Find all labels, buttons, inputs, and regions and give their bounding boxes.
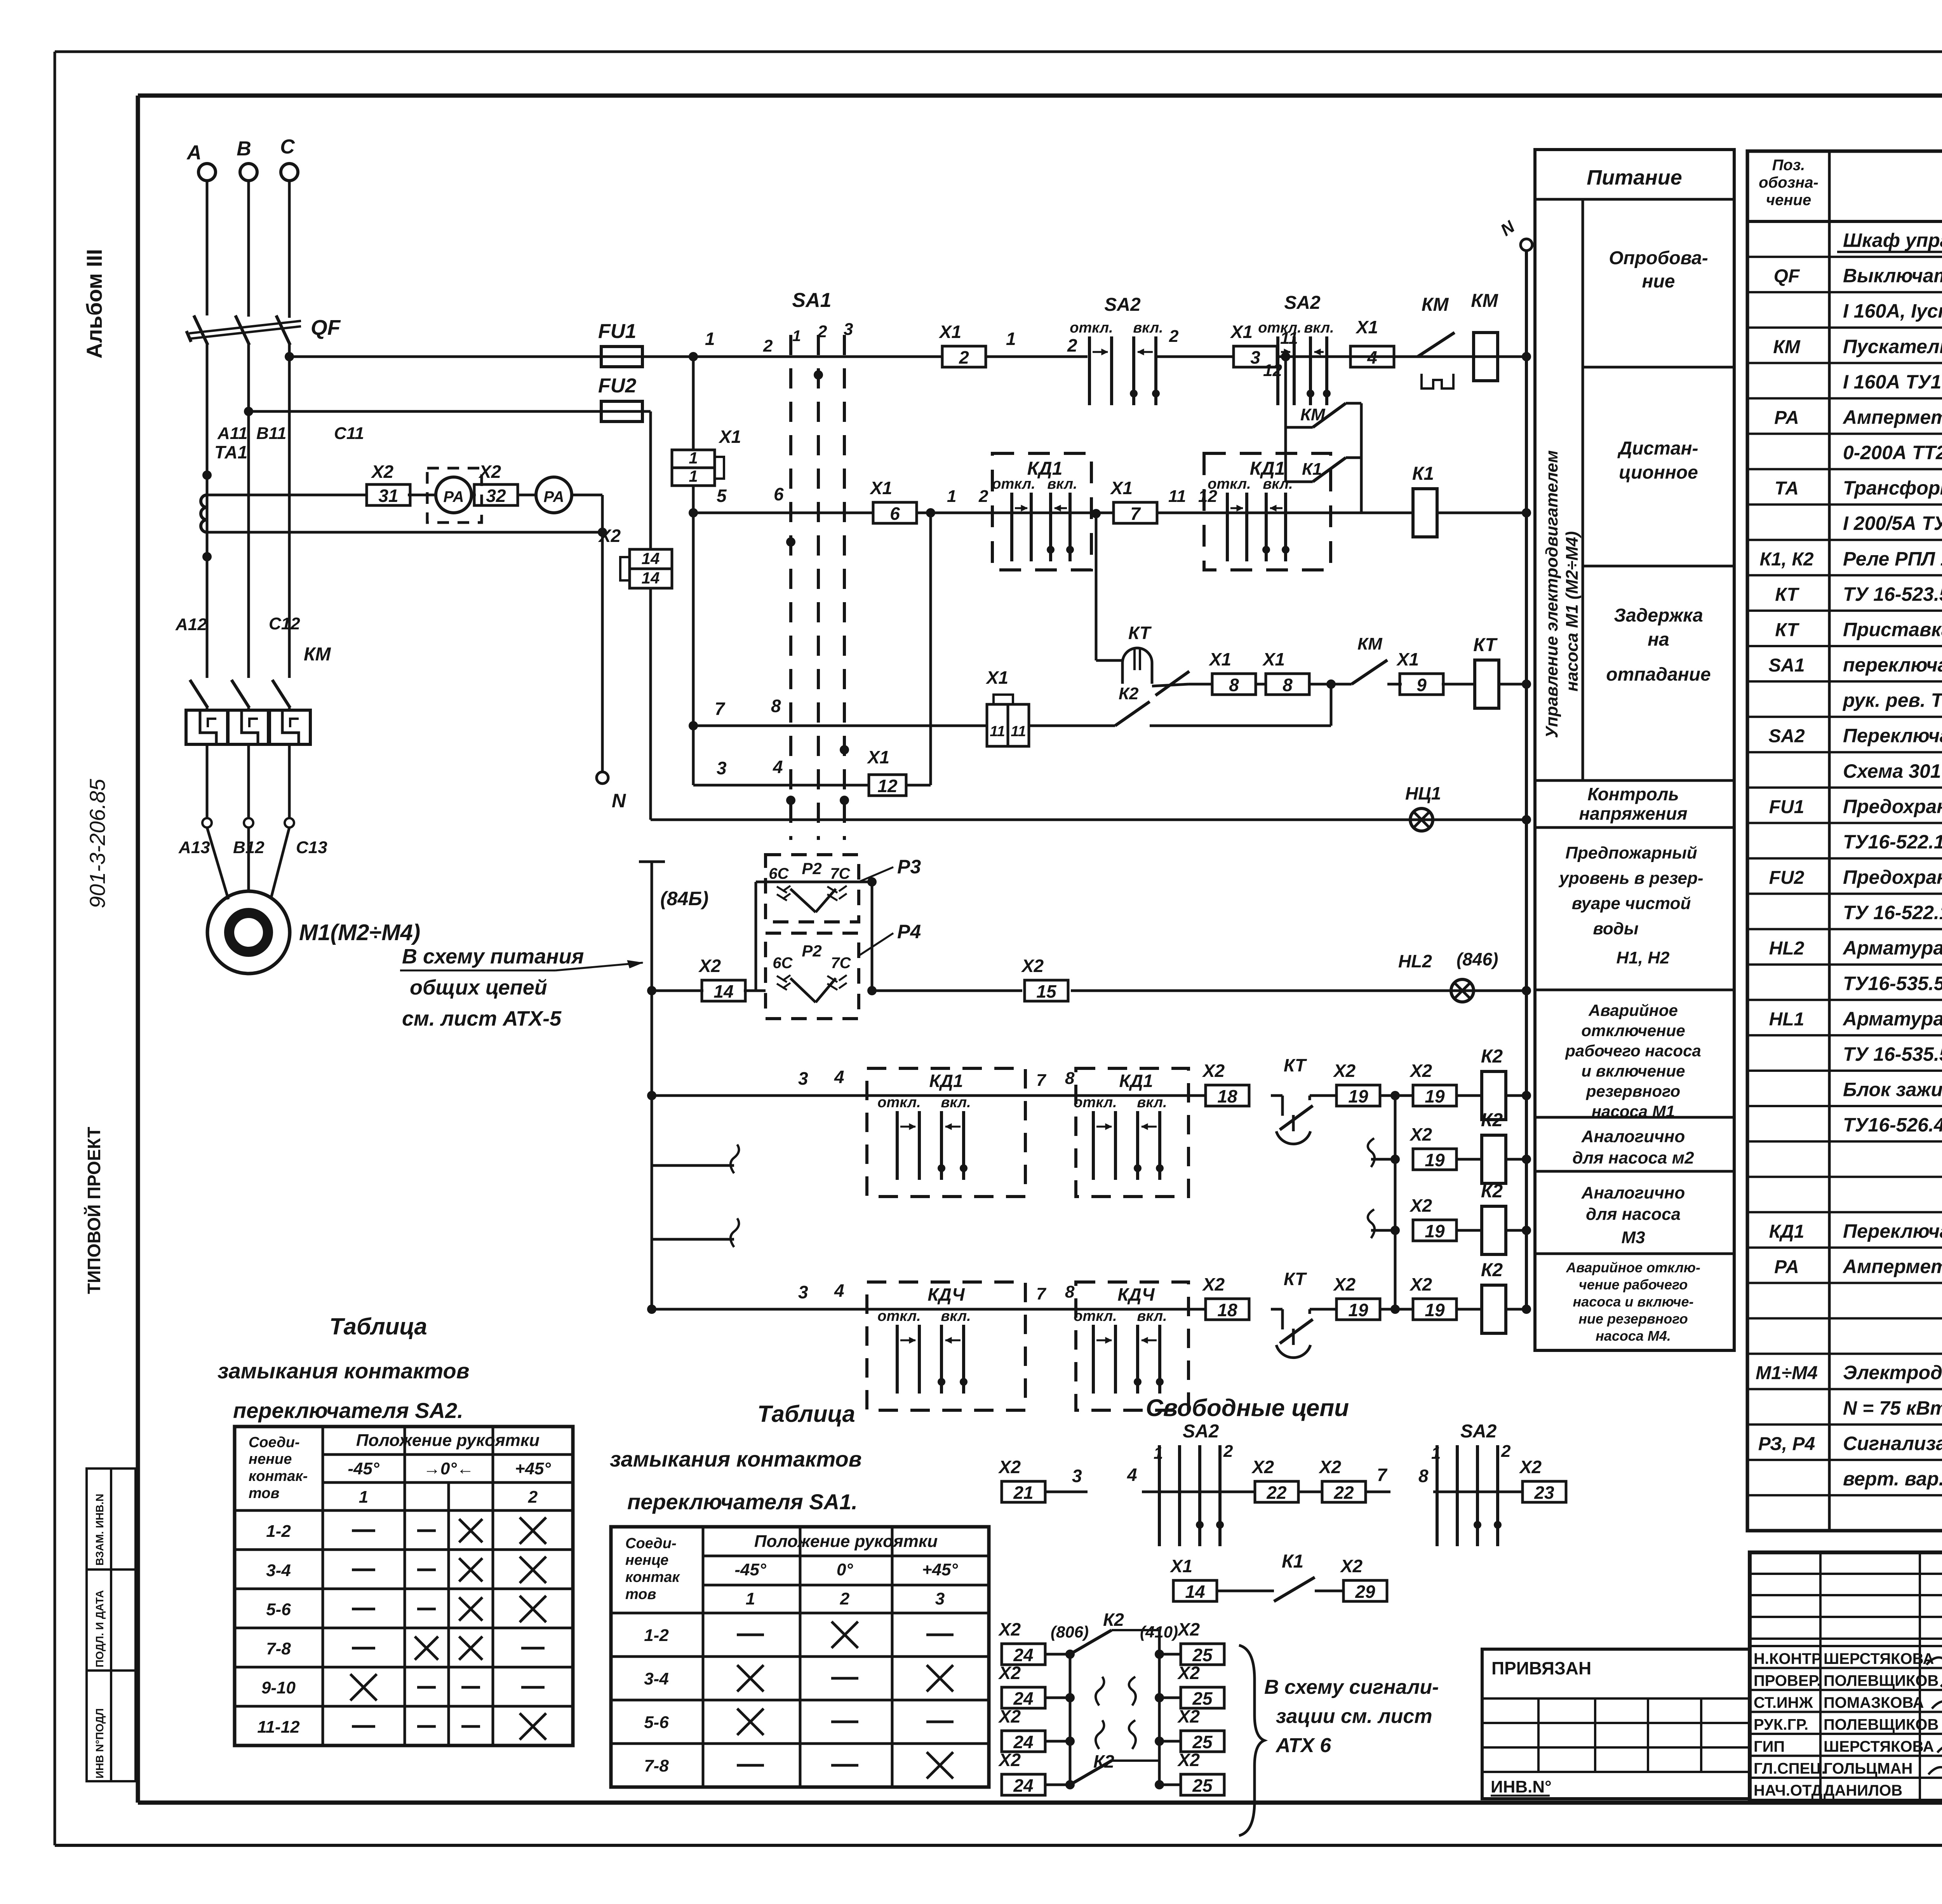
svg-text:Таблица: Таблица xyxy=(329,1313,427,1340)
svg-text:X1: X1 xyxy=(1262,649,1285,669)
svg-text:КД1: КД1 xyxy=(1769,1221,1805,1242)
svg-text:К2: К2 xyxy=(1119,684,1139,703)
svg-text:верт. вар. длина 2,0м ТУ25.020: верт. вар. длина 2,0м ТУ25.02080678-79 xyxy=(1843,1468,1942,1489)
svg-text:М3: М3 xyxy=(1621,1228,1645,1247)
svg-text:Р2: Р2 xyxy=(802,942,821,960)
svg-text:1-2: 1-2 xyxy=(644,1626,669,1645)
terminal X2-19 M4 xyxy=(1316,1308,1336,1311)
svg-text:I 200/5А ТУ16-517.442-80: I 200/5А ТУ16-517.442-80 xyxy=(1843,512,1942,534)
parts row 19 xyxy=(1747,893,1942,895)
parts row 26 xyxy=(1747,1140,1942,1143)
svg-text:ние: ние xyxy=(1642,271,1675,292)
svg-text:РЗ, Р4: РЗ, Р4 xyxy=(1758,1434,1815,1454)
svg-text:1: 1 xyxy=(1431,1444,1441,1463)
svg-text:3: 3 xyxy=(798,1068,808,1089)
wire phase C drop xyxy=(288,181,291,318)
parts row 5 xyxy=(1747,397,1942,399)
svg-text:НАЧ.ОТД: НАЧ.ОТД xyxy=(1754,1782,1822,1799)
current transformer TA1 xyxy=(201,495,207,507)
signature row ГЛ.СПЕЦ. xyxy=(1750,1755,1942,1757)
terminal X2-31 xyxy=(367,484,410,505)
svg-text:ДАНИЛОВ: ДАНИЛОВ xyxy=(1824,1782,1902,1799)
svg-text:Р2: Р2 xyxy=(802,859,821,878)
svg-text:2: 2 xyxy=(959,347,969,368)
svg-text:19: 19 xyxy=(1348,1086,1368,1106)
wire to N terminal xyxy=(572,494,602,496)
KM aux contact 2 xyxy=(1352,660,1387,684)
svg-text:X1: X1 xyxy=(718,427,741,447)
svg-text:ненце: ненце xyxy=(625,1552,668,1568)
svg-text:8: 8 xyxy=(1282,675,1293,695)
parts row 16 xyxy=(1747,786,1942,789)
parts row 31 xyxy=(1747,1317,1942,1320)
parts row 21 xyxy=(1747,963,1942,966)
svg-text:FU2: FU2 xyxy=(1769,868,1805,888)
svg-text:24: 24 xyxy=(1013,1645,1033,1665)
KM aux contact xyxy=(1286,426,1313,429)
row 84B wire to HL2 xyxy=(1071,989,1526,992)
node B11-FU2 tap xyxy=(244,407,253,416)
svg-text:ТУ16-522.112-74: ТУ16-522.112-74 xyxy=(1843,831,1942,853)
P3 label xyxy=(859,867,893,882)
terminal X2-19 M2 xyxy=(1413,1149,1456,1170)
svg-text:24: 24 xyxy=(1013,1775,1033,1796)
svg-text:Соеди-: Соеди- xyxy=(625,1535,677,1552)
cell Контроль напряжения xyxy=(1535,826,1734,829)
svg-text:3: 3 xyxy=(1072,1466,1082,1486)
row B wire 5-6 xyxy=(689,508,698,517)
relay contact K2 xyxy=(1115,702,1150,726)
svg-text:КМ: КМ xyxy=(1300,405,1326,424)
svg-text:SA2: SA2 xyxy=(1768,726,1805,747)
svg-text:1: 1 xyxy=(705,329,715,349)
fuse FU2 xyxy=(249,410,601,413)
riser row B-C xyxy=(692,513,695,726)
terminal X1-8 a xyxy=(1212,674,1256,695)
svg-text:4: 4 xyxy=(773,757,783,777)
selector switch SA1 dashed columns xyxy=(789,335,792,840)
terminal X1-3 xyxy=(1234,346,1277,367)
KT timed contact M4 xyxy=(1271,1308,1282,1311)
row D wire 3-4 xyxy=(692,726,695,785)
svg-text:6: 6 xyxy=(890,503,900,524)
svg-text:4: 4 xyxy=(1127,1465,1137,1485)
svg-text:4: 4 xyxy=(1367,347,1377,368)
svg-text:HL2: HL2 xyxy=(1769,938,1805,959)
svg-text:2: 2 xyxy=(763,336,773,355)
sensor P4 dashed box xyxy=(766,933,859,1019)
margin stamp boxes xyxy=(87,1469,136,1781)
svg-text:см. лист АТХ-5: см. лист АТХ-5 xyxy=(402,1007,562,1030)
cell Дистанционное xyxy=(1583,565,1734,568)
parts row 37 xyxy=(1747,1529,1942,1533)
svg-text:нение: нение xyxy=(249,1451,292,1467)
signature row СТ.ИНЖ xyxy=(1750,1689,1942,1691)
svg-text:X2: X2 xyxy=(998,1706,1021,1726)
svg-text:А13: А13 xyxy=(178,838,210,857)
svg-text:КТ: КТ xyxy=(1473,635,1498,655)
svg-text:Положение рукоятки: Положение рукоятки xyxy=(754,1532,938,1551)
svg-text:КМ: КМ xyxy=(1471,291,1498,311)
svg-text:Переключатель ПКУЗ-12АУЗ: Переключатель ПКУЗ-12АУЗ xyxy=(1843,725,1942,747)
svg-text:напряжения: напряжения xyxy=(1579,803,1687,824)
parts row 7 xyxy=(1747,468,1942,470)
svg-text:X2: X2 xyxy=(1409,1061,1432,1081)
svg-text:3: 3 xyxy=(798,1282,808,1302)
svg-text:Арматура АМЕ 323221242 ~ 220В: Арматура АМЕ 323221242 ~ 220В xyxy=(1842,1008,1942,1030)
svg-text:6: 6 xyxy=(774,484,784,504)
svg-text:Альбом III: Альбом III xyxy=(82,249,106,359)
contactor coil KM xyxy=(1474,333,1498,381)
svg-text:N: N xyxy=(612,790,626,812)
node 11 xyxy=(1277,355,1526,358)
svg-text:19: 19 xyxy=(1425,1300,1445,1320)
svg-text:Питание: Питание xyxy=(1587,166,1682,189)
svg-text:X1: X1 xyxy=(1169,1556,1192,1576)
row M3 stub xyxy=(1368,1209,1375,1238)
svg-text:Реле РПЛ 1220*4 ~ 220В: Реле РПЛ 1220*4 ~ 220В xyxy=(1843,548,1942,570)
svg-text:Электродвигатель 4А250S2УЗ: Электродвигатель 4А250S2УЗ xyxy=(1843,1362,1942,1383)
terminal X2-18 M1 xyxy=(1206,1085,1249,1106)
svg-text:Дистан-: Дистан- xyxy=(1617,438,1698,459)
svg-text:ВЗАМ. ИНВ.N: ВЗАМ. ИНВ.N xyxy=(94,1494,106,1566)
parts row 1 xyxy=(1747,256,1942,258)
svg-text:для насоса м2: для насоса м2 xyxy=(1572,1148,1694,1167)
svg-text:вкл.: вкл. xyxy=(941,1308,971,1324)
svg-text:АТХ 6: АТХ 6 xyxy=(1275,1734,1331,1757)
svg-text:2: 2 xyxy=(1501,1442,1511,1461)
SA2 table row 9-10 xyxy=(235,1705,573,1708)
svg-text:резервного: резервного xyxy=(1586,1082,1680,1100)
signature row ГИП xyxy=(1750,1733,1942,1735)
K2 blade bottom xyxy=(1070,1761,1112,1785)
svg-text:ШЕРСТЯКОВА: ШЕРСТЯКОВА xyxy=(1824,1650,1934,1667)
svg-text:32: 32 xyxy=(486,486,506,506)
row D wire to riser xyxy=(906,784,931,787)
svg-text:КТ: КТ xyxy=(1775,584,1799,605)
terminal X2-19b M1 xyxy=(1413,1085,1456,1106)
row 84B wire xyxy=(647,986,656,995)
svg-text:HL1: HL1 xyxy=(1769,1009,1805,1030)
svg-text:14: 14 xyxy=(713,981,733,1002)
svg-text:24: 24 xyxy=(1013,1688,1033,1709)
ammeter PA1 xyxy=(436,477,472,513)
curly brace xyxy=(1239,1645,1264,1836)
svg-text:ГЛ.СПЕЦ.: ГЛ.СПЕЦ. xyxy=(1754,1760,1826,1777)
svg-text:Задержка: Задержка xyxy=(1614,605,1703,626)
svg-text:5-6: 5-6 xyxy=(266,1600,291,1619)
svg-text:X2: X2 xyxy=(1177,1706,1200,1726)
svg-text:Свободные цепи: Свободные цепи xyxy=(1146,1395,1349,1421)
parts row 11 xyxy=(1747,610,1942,612)
free circuit row1 terminal X2-21 xyxy=(1002,1481,1045,1502)
relay coil K2 M1 xyxy=(1456,1094,1482,1097)
bus junction row A xyxy=(1522,352,1531,361)
svg-text:7: 7 xyxy=(715,699,726,719)
circuit breaker QF xyxy=(194,315,208,345)
svg-text:19: 19 xyxy=(1425,1086,1445,1106)
parts row 10 xyxy=(1747,574,1942,577)
svg-text:КТ: КТ xyxy=(1775,620,1799,640)
svg-text:11: 11 xyxy=(1011,723,1026,740)
parts row 18 xyxy=(1747,857,1942,859)
free SA2 group a xyxy=(1158,1445,1161,1546)
parts table header xyxy=(1747,220,1942,223)
break squiggles mid rows xyxy=(1096,1677,1104,1705)
svg-text:Р3: Р3 xyxy=(897,856,921,878)
connector X2 14/14 xyxy=(630,549,672,569)
svg-text:ПОЛЕВЩИКОВ: ПОЛЕВЩИКОВ xyxy=(1824,1672,1939,1690)
relay coil K2 M3 xyxy=(1456,1229,1482,1232)
svg-text:Сигнализатор ЭРСУ-3 компл. да: Сигнализатор ЭРСУ-3 компл. датчик xyxy=(1843,1432,1942,1454)
svg-text:ГОЛЬЦМАН: ГОЛЬЦМАН xyxy=(1824,1760,1912,1777)
svg-text:ТУ16-526.462-79: ТУ16-526.462-79 xyxy=(1843,1114,1942,1136)
svg-text:X1: X1 xyxy=(1208,649,1231,669)
voltage control lamp line xyxy=(651,819,1526,821)
svg-text:СТ.ИНЖ: СТ.ИНЖ xyxy=(1754,1694,1813,1711)
parts row 33 xyxy=(1747,1388,1942,1390)
svg-text:3-4: 3-4 xyxy=(266,1561,291,1580)
title block main frame xyxy=(1750,1552,1942,1801)
svg-text:КТ: КТ xyxy=(1284,1269,1307,1289)
svg-text:X2: X2 xyxy=(1340,1556,1363,1576)
wire segments to overload xyxy=(206,710,209,711)
parts row 15 xyxy=(1747,751,1942,753)
svg-text:вкл.: вкл. xyxy=(941,1094,971,1111)
svg-text:откл.: откл. xyxy=(1258,320,1301,336)
KT timed contact M1 xyxy=(1271,1094,1282,1097)
SA2 table row 5-6 xyxy=(235,1627,573,1629)
wire C11 xyxy=(288,344,291,678)
terminal X2-24 r2 xyxy=(1002,1687,1045,1708)
terminal X2-15 xyxy=(1025,980,1068,1001)
node before X1-7 xyxy=(1091,509,1101,518)
svg-text:М1÷М4: М1÷М4 xyxy=(1756,1363,1818,1383)
svg-text:SA2: SA2 xyxy=(1284,293,1321,313)
terminal X2-25 r2 xyxy=(1155,1693,1164,1702)
switch KD1 dashed box 2 xyxy=(1204,453,1331,570)
switch КДЧ dashed box 2 M4 xyxy=(1076,1282,1189,1410)
svg-text:К1, К2: К1, К2 xyxy=(1759,549,1813,570)
svg-text:Аварийное отклю-: Аварийное отклю- xyxy=(1566,1259,1700,1275)
svg-text:X1: X1 xyxy=(985,667,1008,688)
svg-text:ТА1: ТА1 xyxy=(214,442,247,462)
svg-text:+45°: +45° xyxy=(515,1459,551,1478)
relay coil K2 M2 xyxy=(1456,1158,1482,1161)
svg-text:Амперметр Э377 кл 1,5: Амперметр Э377 кл 1,5 xyxy=(1842,1256,1942,1277)
parts row 3 xyxy=(1747,326,1942,329)
svg-text:18: 18 xyxy=(1217,1086,1237,1106)
svg-text:N = 75 кВт: N = 75 кВт xyxy=(1843,1397,1942,1419)
svg-text:1: 1 xyxy=(359,1488,368,1507)
svg-text:3: 3 xyxy=(844,320,853,339)
svg-text:7-8: 7-8 xyxy=(644,1756,669,1775)
svg-text:X2: X2 xyxy=(1409,1274,1432,1294)
svg-text:Таблица: Таблица xyxy=(757,1401,855,1427)
connector X1 1/1 on riser xyxy=(692,357,695,450)
row A wire cont xyxy=(986,355,1088,358)
svg-text:19: 19 xyxy=(1348,1300,1368,1320)
svg-text:7: 7 xyxy=(1036,1071,1047,1090)
svg-text:С12: С12 xyxy=(269,614,300,633)
svg-text:19: 19 xyxy=(1425,1150,1445,1170)
KD1 contact group 1 xyxy=(917,512,1114,514)
svg-text:7-8: 7-8 xyxy=(266,1639,291,1658)
svg-text:X2: X2 xyxy=(998,1457,1021,1477)
free circuit row2 terminal X1-14 xyxy=(1173,1580,1217,1601)
svg-text:С13: С13 xyxy=(296,838,327,857)
parts row 34 xyxy=(1747,1423,1942,1426)
svg-text:FU1: FU1 xyxy=(1769,797,1805,817)
wire X2-14/14 down to lamp line xyxy=(649,588,652,820)
terminal X2-29 xyxy=(1343,1580,1387,1601)
svg-text:Аналогично: Аналогично xyxy=(1581,1127,1685,1146)
branch node11 vertical xyxy=(1284,357,1287,482)
svg-text:15: 15 xyxy=(1036,981,1057,1002)
svg-text:откл.: откл. xyxy=(877,1308,921,1324)
junction rowC-KT xyxy=(1309,683,1352,686)
svg-text:чение рабочего: чение рабочего xyxy=(1579,1277,1688,1293)
terminal X2-23 xyxy=(1523,1481,1566,1502)
svg-text:3-4: 3-4 xyxy=(644,1669,669,1688)
sheet outer border xyxy=(55,51,1942,53)
svg-text:ТУ 16-522.112-74 Iпл.вст. 1А: ТУ 16-522.112-74 Iпл.вст. 1А xyxy=(1843,902,1942,923)
parts row 12 xyxy=(1747,645,1942,647)
svg-text:X2: X2 xyxy=(1202,1061,1225,1081)
svg-text:КМ: КМ xyxy=(1422,294,1449,315)
svg-text:29: 29 xyxy=(1355,1582,1375,1602)
svg-text:откл.: откл. xyxy=(877,1094,921,1111)
parts row 17 xyxy=(1747,822,1942,824)
svg-text:РА: РА xyxy=(1774,1257,1799,1277)
parts row 29 xyxy=(1747,1246,1942,1249)
SA2 table row 1-2 xyxy=(235,1548,573,1551)
svg-text:ТУ 16-535.582-76: ТУ 16-535.582-76 xyxy=(1843,1043,1942,1065)
riser stubs analogous circuits xyxy=(652,1164,734,1167)
svg-text:6С: 6С xyxy=(769,865,789,882)
svg-text:X2: X2 xyxy=(1333,1274,1356,1294)
wire B11 xyxy=(247,344,250,678)
svg-text:+45°: +45° xyxy=(922,1560,958,1579)
terminal X2-22a xyxy=(1255,1481,1298,1502)
parts row 25 xyxy=(1747,1105,1942,1107)
svg-text:замыкания контактов: замыкания контактов xyxy=(610,1447,862,1471)
row A wire to X1-3 xyxy=(1156,355,1233,358)
svg-text:откл.: откл. xyxy=(992,476,1035,492)
svg-text:замыкания контактов: замыкания контактов xyxy=(218,1359,470,1383)
parts row 9 xyxy=(1747,539,1942,541)
title block signature grid xyxy=(1750,1573,1942,1575)
svg-text:Положение рукоятки: Положение рукоятки xyxy=(356,1431,539,1450)
wires to motor terminals xyxy=(206,744,209,818)
svg-text:зации см. лист: зации см. лист xyxy=(1276,1705,1432,1728)
relay coil K2 M4 xyxy=(1456,1308,1482,1311)
svg-text:X2: X2 xyxy=(1251,1457,1274,1477)
terminal X2-25 r1 xyxy=(1155,1650,1164,1659)
svg-text:7: 7 xyxy=(1036,1284,1047,1303)
row C wire right xyxy=(1150,725,1331,727)
svg-text:6С: 6С xyxy=(773,955,793,972)
svg-text:24: 24 xyxy=(1013,1732,1033,1752)
svg-text:отключение: отключение xyxy=(1581,1021,1685,1040)
terminal X2-24 r3 xyxy=(1002,1731,1045,1752)
level sensor bridge xyxy=(744,989,766,992)
svg-text:вкл.: вкл. xyxy=(1047,476,1077,492)
row A wire xyxy=(642,355,695,358)
svg-text:8: 8 xyxy=(1065,1069,1075,1088)
svg-text:К2: К2 xyxy=(1093,1751,1114,1772)
svg-text:чение: чение xyxy=(1766,192,1811,209)
svg-text:Трансформатор тока ТК20-0,5У: Трансформатор тока ТК20-0,5УЗ xyxy=(1843,477,1942,499)
terminal X2-19 M1 xyxy=(1316,1094,1336,1097)
terminal X2-19 M3 xyxy=(1413,1220,1456,1241)
svg-text:21: 21 xyxy=(1013,1482,1033,1503)
SA2 table row 3-4 xyxy=(235,1587,573,1590)
svg-text:23: 23 xyxy=(1534,1482,1554,1503)
terminal X1-9 xyxy=(1400,674,1443,695)
row M1 wire xyxy=(647,1091,656,1100)
svg-text:В11: В11 xyxy=(256,424,286,443)
svg-text:1: 1 xyxy=(792,327,801,345)
svg-text:5-6: 5-6 xyxy=(644,1713,669,1732)
parts row 28 xyxy=(1747,1211,1942,1213)
svg-text:22: 22 xyxy=(1333,1482,1354,1503)
svg-text:Амперметр Э377 кл 1,5 предел: Амперметр Э377 кл 1,5 предел измер. xyxy=(1842,406,1942,428)
relay coil K1 xyxy=(1413,489,1437,537)
svg-text:X1: X1 xyxy=(867,747,889,767)
parts row 6 xyxy=(1747,432,1942,435)
svg-text:X2: X2 xyxy=(478,462,501,482)
svg-text:SA1: SA1 xyxy=(792,289,831,312)
svg-text:К1: К1 xyxy=(1302,460,1322,479)
parts row 20 xyxy=(1747,928,1942,930)
svg-text:901-3-206.85: 901-3-206.85 xyxy=(85,779,110,908)
wire KT to X1-8 xyxy=(1189,683,1212,686)
switch КД1 dashed box 1 M1 xyxy=(867,1068,1025,1197)
terminal X1-2 xyxy=(942,346,986,367)
row C riser to KT row xyxy=(1330,684,1333,726)
svg-text:1: 1 xyxy=(746,1589,755,1608)
table SA2 frame xyxy=(235,1427,573,1745)
svg-text:Схема 3016 рук. рев ТУ16-526.0: Схема 3016 рук. рев ТУ16-526.047-74 xyxy=(1843,760,1942,782)
svg-text:(846): (846) xyxy=(1456,949,1498,969)
svg-text:9: 9 xyxy=(1416,675,1427,695)
svg-text:Соеди-: Соеди- xyxy=(249,1434,300,1451)
table SA1 frame xyxy=(611,1527,989,1787)
signature row ПРОВЕР. xyxy=(1750,1667,1942,1669)
fuse FU1 xyxy=(289,355,601,358)
node 1 xyxy=(689,352,698,361)
terminal X2-32 xyxy=(472,494,476,496)
svg-text:КТ: КТ xyxy=(1284,1055,1307,1075)
svg-text:общих цепей: общих цепей xyxy=(410,976,547,999)
svg-text:X2: X2 xyxy=(998,1663,1021,1683)
svg-text:А12: А12 xyxy=(175,615,207,634)
P4 label xyxy=(859,933,893,956)
svg-text:для насоса: для насоса xyxy=(1586,1205,1681,1224)
bus1 vertical xyxy=(1069,1654,1072,1785)
cell Предпожарный уровень xyxy=(1535,989,1734,991)
svg-text:Н1, Н2: Н1, Н2 xyxy=(1617,948,1670,967)
row M4 wire xyxy=(647,1305,656,1314)
svg-text:Р4: Р4 xyxy=(897,921,921,942)
svg-text:X2: X2 xyxy=(998,1619,1021,1639)
svg-text:КМ: КМ xyxy=(304,644,331,665)
svg-text:и включение: и включение xyxy=(1581,1062,1685,1080)
terminal X1-6 xyxy=(873,502,917,523)
wire phase A drop xyxy=(206,181,209,315)
svg-text:X2: X2 xyxy=(1177,1619,1200,1639)
